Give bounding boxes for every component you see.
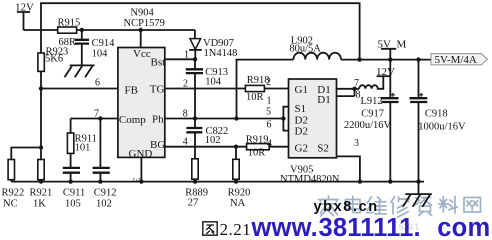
- junction Comp/C912: [98, 116, 102, 120]
- wire top feedback line from output: [41, 3, 360, 88]
- svg-text:C912: C912: [94, 188, 117, 199]
- svg-text:4: 4: [267, 138, 272, 149]
- svg-text:NC: NC: [3, 199, 18, 210]
- resistor R921: [30, 89, 53, 210]
- svg-text:NCP1579: NCP1579: [124, 18, 165, 29]
- svg-text:Comp: Comp: [119, 114, 146, 126]
- wire FB line pin 6: [41, 88, 118, 90]
- wire GND pin 3 stub: [140, 157, 142, 181]
- svg-text:104: 104: [205, 77, 222, 88]
- junction C914 tap: [80, 28, 84, 32]
- inductor L902: [289, 36, 341, 60]
- capacitor C911: [63, 153, 80, 181]
- svg-text:102: 102: [96, 199, 112, 210]
- capacitor C822: [186, 119, 228, 159]
- svg-text:Ph: Ph: [152, 114, 164, 126]
- wire Ph line pin 8: [165, 118, 284, 120]
- svg-text:R920: R920: [228, 188, 251, 199]
- capacitor C912: [93, 119, 110, 182]
- svg-text:www.3811111.com: www.3811111.com: [251, 214, 491, 239]
- svg-text:1000u/16V: 1000u/16V: [418, 122, 466, 133]
- svg-text:NTMD4820N: NTMD4820N: [280, 174, 340, 185]
- wire Bst pin 1 stub: [165, 58, 195, 60]
- svg-text:C917: C917: [361, 109, 384, 120]
- diode VD907 1N4148: [189, 30, 237, 59]
- resistor R915: [58, 18, 81, 49]
- svg-text:2: 2: [266, 77, 271, 88]
- ground chassis at bus end: [403, 182, 432, 207]
- svg-text:102: 102: [205, 135, 221, 146]
- resistor R911: [67, 119, 97, 154]
- svg-text:G2: G2: [295, 142, 308, 154]
- svg-text:6: 6: [95, 78, 100, 89]
- svg-text:1: 1: [267, 96, 272, 107]
- svg-text:NA: NA: [230, 198, 246, 209]
- wire D1 pins 7,8: [337, 78, 361, 101]
- svg-text:TG: TG: [150, 84, 165, 96]
- resistor R918: [245, 75, 269, 103]
- svg-text:105: 105: [65, 199, 81, 210]
- svg-text:5V-M/4A: 5V-M/4A: [435, 54, 477, 66]
- svg-text:80u/5A: 80u/5A: [289, 44, 321, 55]
- svg-text:ybx8.cn: ybx8.cn: [314, 199, 379, 215]
- svg-text:S2: S2: [317, 142, 329, 154]
- node 5V-M/4A output tag: [431, 54, 487, 67]
- svg-text:1K: 1K: [33, 199, 46, 210]
- wire S2 pin 3: [337, 138, 360, 182]
- svg-text:C911: C911: [63, 188, 85, 199]
- resistor R919: [246, 135, 269, 159]
- svg-text:10R: 10R: [246, 92, 264, 103]
- ground chassis under C914: [65, 65, 95, 77]
- svg-text:27: 27: [188, 198, 199, 209]
- junction top feedback riser: [357, 57, 361, 61]
- svg-text:R921: R921: [30, 188, 53, 199]
- node 5V_M label: [378, 38, 407, 59]
- svg-text:R919: R919: [246, 135, 269, 146]
- capacitor C914: [75, 30, 115, 65]
- node 12V label at L912: [376, 66, 395, 78]
- junction C917/5V_M: [388, 57, 392, 61]
- wire Vcc stub: [140, 30, 142, 48]
- svg-text:2: 2: [183, 79, 188, 90]
- svg-text:C918: C918: [425, 109, 448, 120]
- svg-text:6: 6: [267, 120, 272, 131]
- svg-text:D2: D2: [295, 126, 308, 138]
- svg-text:N904: N904: [130, 8, 154, 19]
- svg-text:D1: D1: [317, 94, 330, 106]
- junction Vcc tap: [139, 28, 143, 32]
- svg-text:4: 4: [183, 137, 188, 148]
- capacitor C917 electrolytic: [344, 60, 399, 182]
- capacitor C918 electrolytic: [410, 60, 466, 182]
- resistor R889: [185, 159, 208, 209]
- wire R918 to G1: [264, 88, 288, 90]
- capacitor C913: [186, 59, 228, 118]
- wire switch node riser to L902: [237, 60, 294, 119]
- svg-text:GND: GND: [129, 148, 153, 160]
- svg-text:R922: R922: [2, 188, 25, 199]
- junction BG/R920: [234, 145, 238, 149]
- svg-text:7: 7: [354, 78, 359, 89]
- svg-text:S1: S1: [295, 103, 307, 115]
- label figure caption 图2.21: [203, 222, 217, 235]
- transistor Q1/Q2 dual MOSFET V905 NTMD4820N box: [289, 79, 337, 158]
- watermark 家电维修资料网 (vector): [319, 196, 481, 217]
- wire 12V rail to R915: [24, 29, 58, 31]
- junction dots on bus: [39, 179, 43, 183]
- wire R915 to diode corner: [77, 29, 195, 31]
- svg-text:2200u/16V: 2200u/16V: [344, 120, 392, 131]
- ground bus: [11, 181, 424, 183]
- junction C918: [416, 57, 420, 61]
- svg-text:C914: C914: [92, 38, 116, 49]
- node S1/D2 bracket pins 1,5,6: [266, 96, 289, 131]
- svg-text:R915: R915: [58, 18, 81, 29]
- resistor R923: [38, 47, 68, 72]
- resistor R920: [228, 147, 251, 209]
- svg-text:101: 101: [75, 143, 91, 154]
- svg-text:104: 104: [92, 49, 109, 60]
- inductor L912: [359, 76, 383, 107]
- wire R919 to G2: [269, 146, 288, 148]
- junction Bst/diode/C913: [193, 57, 197, 61]
- svg-text:1: 1: [184, 50, 189, 61]
- wire TG line pin 2: [165, 88, 246, 90]
- wire output line: [341, 59, 431, 61]
- svg-text:L912: L912: [361, 96, 383, 107]
- junction Ph/C913/C822: [193, 116, 197, 120]
- svg-text:7: 7: [94, 109, 99, 120]
- svg-text:2.21: 2.21: [220, 220, 252, 239]
- svg-text:3: 3: [354, 138, 359, 149]
- junction Ph riser to L902: [234, 116, 238, 120]
- node 12V input label: [15, 2, 34, 31]
- svg-text:10R: 10R: [248, 148, 266, 159]
- wire Comp line pin 7: [71, 118, 118, 120]
- svg-text:5K6: 5K6: [45, 54, 63, 65]
- wire BG line pin 4: [165, 146, 247, 148]
- junction FB node: [39, 86, 43, 90]
- svg-text:Bst: Bst: [151, 57, 166, 69]
- resistor R922: [2, 148, 42, 210]
- svg-text:5: 5: [266, 107, 271, 118]
- op-amp U1 : controller IC N904 NCP1579 box: [118, 48, 165, 161]
- svg-text:G1: G1: [295, 84, 308, 96]
- svg-text:1N4148: 1N4148: [204, 48, 238, 59]
- svg-text:Vcc: Vcc: [133, 48, 151, 60]
- svg-text:FB: FB: [125, 85, 138, 97]
- junction R921/R922: [39, 145, 43, 149]
- svg-text:8: 8: [183, 109, 188, 120]
